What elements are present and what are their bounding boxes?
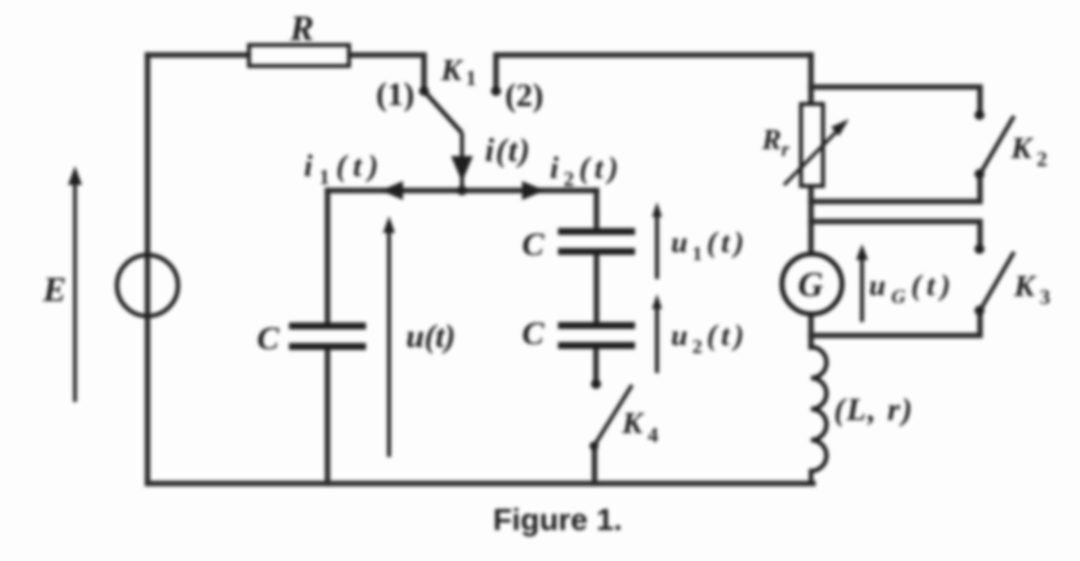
resistor R bbox=[249, 8, 349, 66]
svg-text:u(t): u(t) bbox=[406, 319, 456, 355]
svg-text:Figure 1.: Figure 1. bbox=[493, 502, 622, 537]
wire resistor to K1 contact 1 bbox=[349, 55, 424, 88]
svg-text:i2(t): i2(t) bbox=[550, 150, 623, 191]
wire inner top horizontal bbox=[328, 188, 597, 194]
capacitor C left bbox=[257, 321, 366, 357]
arrow i1(t) bbox=[304, 148, 403, 200]
wire K1 contact 2 stub and top right bbox=[496, 55, 811, 88]
wire bottom bbox=[148, 481, 814, 487]
inductor (L,r) bbox=[811, 347, 914, 484]
wire left capacitor branch lower bbox=[325, 350, 331, 484]
svg-text:C: C bbox=[257, 321, 280, 357]
svg-text:i1(t): i1(t) bbox=[304, 148, 385, 189]
wire left capacitor branch upper bbox=[325, 191, 331, 324]
switch K3 bbox=[975, 244, 1051, 316]
switch K2 bbox=[975, 110, 1048, 179]
svg-text:K2: K2 bbox=[1010, 130, 1047, 171]
arrow u1(t) bbox=[652, 202, 749, 279]
source E circle bbox=[117, 255, 178, 316]
svg-text:(2): (2) bbox=[505, 78, 543, 114]
arrow i2(t) bbox=[522, 150, 623, 200]
svg-text:G: G bbox=[798, 265, 823, 304]
wire middle branch between capacitors bbox=[594, 255, 600, 322]
arrow u2(t) bbox=[652, 294, 749, 373]
svg-text:i(t): i(t) bbox=[485, 133, 531, 169]
arrow i(t) bbox=[451, 133, 531, 190]
wire K2 loop top bbox=[811, 87, 980, 112]
capacitor C2 middle bbox=[522, 316, 635, 352]
arrow uG(t) bbox=[856, 244, 956, 322]
svg-text:C: C bbox=[522, 316, 545, 352]
galvanometer G bbox=[782, 254, 842, 314]
svg-text:(1): (1) bbox=[376, 77, 414, 113]
arrow E bbox=[42, 166, 82, 402]
svg-text:u2(t): u2(t) bbox=[671, 319, 749, 358]
wire Rr box to G top bbox=[808, 186, 814, 255]
wire top left to resistor bbox=[148, 52, 250, 58]
svg-text:C: C bbox=[522, 227, 545, 263]
wire middle branch upper bbox=[594, 191, 600, 229]
wire G bottom to coil bbox=[808, 314, 814, 347]
wire K3 loop bottom bbox=[811, 311, 980, 336]
capacitor C1 middle bbox=[522, 227, 635, 263]
svg-text:K1: K1 bbox=[440, 52, 476, 90]
rheostat Rr bbox=[761, 104, 849, 186]
wire K2 loop bottom bbox=[811, 174, 980, 202]
arrow u(t) bbox=[383, 216, 456, 457]
wire K4 to bottom bbox=[592, 446, 598, 484]
wire left vertical bbox=[145, 55, 151, 484]
wire middle branch below capacitor to K4 bbox=[593, 349, 599, 384]
switch K1 bbox=[376, 52, 543, 133]
svg-text:uG(t): uG(t) bbox=[869, 269, 956, 308]
wire K3 loop top bbox=[811, 222, 980, 245]
svg-text:K3: K3 bbox=[1013, 268, 1050, 309]
node junction bbox=[457, 186, 467, 196]
svg-text:Rr: Rr bbox=[761, 124, 789, 161]
wire right vertical upper bbox=[808, 55, 814, 104]
svg-text:K4: K4 bbox=[621, 405, 659, 447]
svg-text:R: R bbox=[289, 8, 314, 48]
svg-text:(L, r): (L, r) bbox=[834, 391, 914, 427]
svg-text:E: E bbox=[42, 270, 66, 309]
switch K4 bbox=[590, 379, 659, 451]
svg-text:u1(t): u1(t) bbox=[671, 226, 749, 265]
